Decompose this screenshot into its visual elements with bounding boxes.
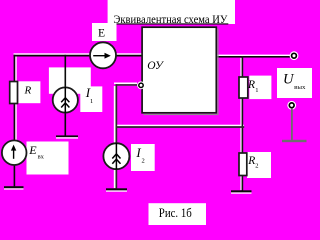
svg-text:E: E — [28, 143, 37, 157]
halo under ground bar I1 — [56, 137, 78, 138]
svg-text:R: R — [24, 84, 32, 96]
gray probe bar — [282, 140, 307, 142]
wire: output horizontal (OU to terminal) — [217, 56, 292, 58]
ground bar under Eвх — [4, 186, 24, 188]
label box Eвх — [27, 142, 69, 175]
output terminal top — [290, 51, 299, 60]
title background strip — [108, 0, 235, 24]
svg-text:U: U — [283, 72, 295, 88]
wire halo left of R1-R2 vertical — [240, 58, 242, 190]
svg-text:вх: вх — [38, 154, 45, 161]
svg-text:R: R — [247, 79, 255, 91]
svg-text:вых: вых — [294, 84, 306, 91]
svg-text:R: R — [247, 155, 255, 167]
wire: I2 branch vertical — [116, 84, 118, 188]
white box (blank) left of I1 — [49, 67, 91, 93]
resistor R — [10, 82, 18, 104]
OU box bottom shadow — [144, 114, 219, 115]
halo right of left vertical wire — [15, 57, 17, 141]
wire: feedback horizontal y=127 — [116, 126, 245, 128]
wire: I1 branch vertical — [65, 55, 67, 136]
current source I1 (circle, line through, double chevron) — [53, 87, 78, 112]
gray probe wire below bottom terminal — [291, 108, 293, 140]
label box R — [18, 81, 40, 103]
label box E — [92, 23, 117, 41]
svg-text:1: 1 — [255, 87, 258, 94]
caption box — [149, 203, 207, 225]
source E (circle with right arrow) — [90, 42, 116, 68]
wire halo left of I2 vertical — [114, 86, 116, 188]
svg-text:2: 2 — [255, 163, 258, 170]
wire: inverting-input stub to node — [116, 84, 140, 86]
op-amp block OU — [142, 27, 216, 113]
svg-text:ОУ: ОУ — [147, 58, 164, 72]
halo under ground bar I2 — [106, 190, 127, 191]
ground bar under R2 — [231, 190, 252, 192]
wire: left vertical (through R and Eвх) — [14, 55, 16, 187]
halo above output rail — [217, 55, 292, 56]
node circle on OU input — [137, 81, 145, 89]
halo under ground bar Eвх — [4, 188, 24, 189]
title underline — [114, 23, 229, 24]
svg-text:2: 2 — [142, 157, 145, 164]
ground bar under I1 — [56, 135, 78, 137]
ground bar under I2 — [106, 188, 127, 190]
svg-text:1: 1 — [90, 98, 93, 105]
current source I2 (circle, line through, double chevron) — [103, 143, 129, 169]
source Eвх (circle with up arrow) — [2, 140, 27, 165]
label box R2 — [247, 152, 271, 178]
wire: right vertical R1-R2 — [242, 56, 244, 191]
svg-text:I: I — [135, 145, 141, 160]
label box I2 — [131, 144, 155, 171]
resistor R1 — [239, 77, 248, 98]
wire: top-left horizontal rail — [14, 55, 143, 57]
label box Uвых — [277, 68, 312, 98]
wire halo above input stub — [114, 83, 137, 85]
label box I1 — [80, 86, 102, 112]
label box R1 — [249, 76, 271, 100]
halo above top-left rail — [14, 53, 143, 55]
svg-text:Рис. 1б: Рис. 1б — [159, 205, 192, 220]
resistor R2 — [239, 153, 247, 176]
output terminal bottom — [287, 101, 296, 110]
OU box right shadow — [217, 29, 218, 116]
halo under ground bar R2 — [231, 192, 252, 193]
svg-text:E: E — [98, 27, 105, 40]
wire halo above feedback wire — [114, 125, 244, 127]
